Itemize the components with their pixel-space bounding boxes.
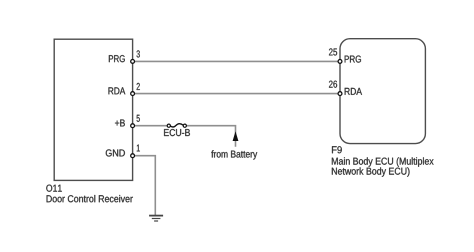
wire +B: O11 pin 5 to fuse ECU-B (133, 125, 168, 127)
connector F9 (Main Body ECU) box (340, 39, 425, 144)
label Main Body ECU (Multiplex (332, 157, 434, 166)
pin label RDA (O11) (109, 87, 126, 94)
wire RDA: O11 pin 2 to F9 pin 26 (133, 93, 340, 95)
pin 26 terminal (338, 92, 342, 96)
wire GND: O11 pin 1 to ground (133, 156, 156, 216)
label Door Control Receiver (47, 195, 133, 202)
pin 1 terminal (131, 154, 135, 158)
wire PRG: O11 pin 3 to F9 pin 25 (133, 60, 340, 62)
pin label GND (O11) (106, 149, 125, 156)
label Network Body ECU) (332, 167, 410, 176)
pin label PRG (F9) (345, 56, 361, 63)
label O11 (46, 185, 62, 192)
connector O11 (Door Control Receiver) box (54, 39, 132, 180)
pin number 1 (O11) (137, 145, 140, 152)
pin 25 terminal (338, 60, 342, 64)
wire: fuse ECU-B to battery feed corner (186, 126, 235, 147)
pin label +B (O11) (115, 120, 125, 127)
label from Battery (211, 150, 257, 159)
pin 3 terminal (131, 60, 135, 64)
pin label RDA (F9) (345, 88, 362, 95)
label fuse ECU-B (164, 129, 190, 136)
pin label PRG (O11) (109, 55, 125, 62)
ground symbol (149, 216, 163, 221)
pin number 25 (F9) (329, 48, 337, 55)
pin number 2 (O11) (137, 83, 140, 90)
pin number 26 (F9) (329, 81, 337, 88)
label F9 (332, 146, 342, 153)
battery feed arrow (233, 131, 239, 141)
pin 2 terminal (131, 92, 135, 96)
pin number 5 (O11) (137, 115, 140, 122)
pin 5 terminal (131, 124, 135, 128)
pin number 3 (O11) (137, 50, 140, 57)
fuse ECU-B element (167, 124, 186, 128)
